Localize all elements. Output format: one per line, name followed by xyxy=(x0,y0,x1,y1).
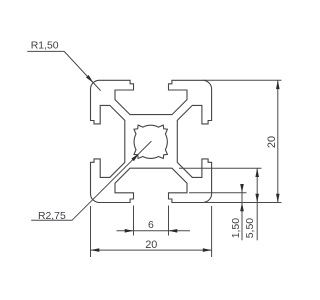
svg-text:1,50: 1,50 xyxy=(231,218,242,238)
svg-text:R2,75: R2,75 xyxy=(38,211,66,222)
svg-text:20: 20 xyxy=(145,239,157,251)
svg-text:R1,50: R1,50 xyxy=(31,40,59,51)
svg-text:20: 20 xyxy=(266,136,278,148)
svg-text:5,50: 5,50 xyxy=(245,218,256,238)
svg-text:6: 6 xyxy=(148,220,154,231)
